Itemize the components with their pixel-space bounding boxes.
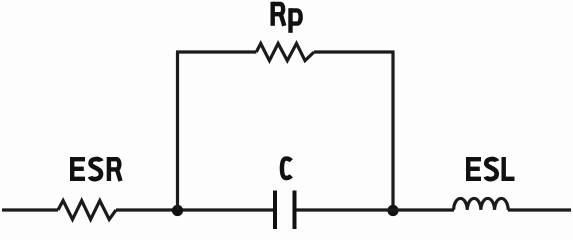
node left junction xyxy=(172,205,183,216)
wire: top right segment xyxy=(314,50,395,53)
wire: main left lead xyxy=(2,208,58,211)
resistor ESR xyxy=(58,201,116,220)
wire: capacitor to inductor xyxy=(297,208,455,211)
wire: right vertical branch xyxy=(391,52,394,210)
wire: ESR to capacitor left plate xyxy=(116,208,273,211)
node right junction xyxy=(387,205,398,216)
wire: main right lead xyxy=(508,208,571,211)
wire: top left segment xyxy=(176,50,256,53)
wire: left vertical branch xyxy=(176,52,179,210)
capacitor C right plate xyxy=(293,191,297,230)
label C xyxy=(282,159,291,179)
resistor Rp xyxy=(256,44,314,61)
label ESL xyxy=(466,157,515,181)
label Rp xyxy=(273,2,301,33)
label ESR xyxy=(70,157,121,181)
inductor ESL xyxy=(454,198,509,209)
capacitor C left plate xyxy=(273,191,277,230)
